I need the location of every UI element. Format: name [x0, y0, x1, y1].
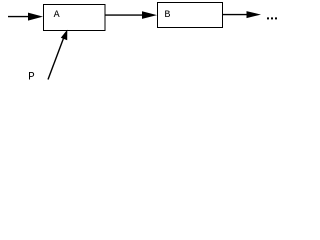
- box A: [44, 5, 106, 31]
- box B: [158, 3, 223, 28]
- diagonal arrow P to A: [48, 30, 67, 80]
- svg-text:A: A: [54, 10, 60, 21]
- wire arrow out of B: [223, 11, 261, 18]
- wire arrow A to B: [105, 11, 157, 19]
- ellipsis: [267, 17, 277, 19]
- svg-text:B: B: [164, 10, 170, 21]
- svg-text:P: P: [28, 72, 35, 84]
- wire arrow into A: [8, 13, 43, 21]
